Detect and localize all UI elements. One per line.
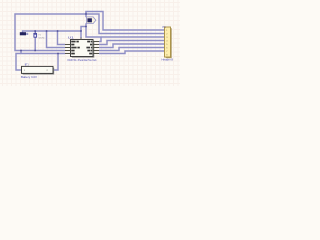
IC U1 shadow xyxy=(72,41,95,58)
wire battery right riser x58 xyxy=(53,54,58,71)
IC U1 pin stubs left xyxy=(65,38,99,54)
wire IC right pin 53.5 step up to row7 y50.5 xyxy=(99,51,165,54)
wire IC right pin 44.5 step up to row4 y40 xyxy=(99,41,165,45)
node crystal bottom junction xyxy=(34,50,36,52)
IC U1 pin names text xyxy=(71,41,92,55)
port VCC near IC top xyxy=(86,17,96,24)
sheet background xyxy=(0,0,180,86)
node battery riser junction xyxy=(57,53,59,55)
battery BT1 body xyxy=(22,66,54,73)
svg-text:Header 8: Header 8 xyxy=(162,58,174,61)
wire crystal bottom lead join y50.5 xyxy=(34,37,36,50)
node port stub junction on y15 xyxy=(85,13,87,15)
svg-text:P1: P1 xyxy=(163,25,167,29)
connector P1 pin numbers xyxy=(166,30,168,57)
svg-text:DS1307 64 x 8 Serial Real Time: DS1307 64 x 8 Serial Real Time Clock xyxy=(68,59,98,62)
svg-text:Battery 3.0V: Battery 3.0V xyxy=(21,76,37,79)
wire riser x46.5 down to IC pin row 47.5 xyxy=(47,31,66,48)
wire gnd row y53.5 from battery loop x16 xyxy=(16,54,65,71)
svg-text:U1: U1 xyxy=(68,36,75,40)
node riser x57.5 junction xyxy=(57,30,59,32)
wire main top rail y15 with left rail down to y50.5 xyxy=(15,14,165,51)
wire upper jog y12 from port stub to riser x103 to connector pin1 xyxy=(86,12,165,31)
wire port L-branch to IC top pin xyxy=(81,27,86,32)
port net label at left end of crystal rail xyxy=(20,32,28,35)
crystal Y1 xyxy=(33,31,37,37)
wire IC right pin 50.5 step up to row6 y47 xyxy=(99,48,165,51)
node crystal top junction xyxy=(34,30,36,32)
wire riser x57.5 down to IC pin row 44.5 xyxy=(58,31,66,45)
wire IC right pin 41.5 riser up to row3 xyxy=(99,37,101,42)
grid xyxy=(0,0,180,86)
crystal value text xyxy=(38,34,44,39)
svg-text:32kHz: 32kHz xyxy=(38,37,44,39)
IC U1 pin stubs right xyxy=(93,42,99,54)
wire crystal rail y31 x23 to x81 down to IC top pin xyxy=(23,31,82,38)
svg-text:BT1: BT1 xyxy=(25,62,29,66)
battery BT1 pin marks xyxy=(24,70,49,72)
IC U1 body xyxy=(71,40,94,57)
node riser x46.5 junction xyxy=(46,30,48,32)
wire link x21 between rows 50.5 and 53.5 xyxy=(20,51,22,54)
IC top pin stub xyxy=(80,38,82,41)
wire port top stub xyxy=(85,12,87,18)
wire port bottom riser x86 to row y36.5 to connector pin3 xyxy=(86,23,165,37)
wire IC right pin 47.5 step up to row5 y43.5 xyxy=(99,44,165,48)
connector P1 shadow xyxy=(166,28,172,58)
connector P1 body xyxy=(165,27,171,57)
battery BT1 shadow xyxy=(23,68,55,75)
junction dots xyxy=(20,13,87,54)
